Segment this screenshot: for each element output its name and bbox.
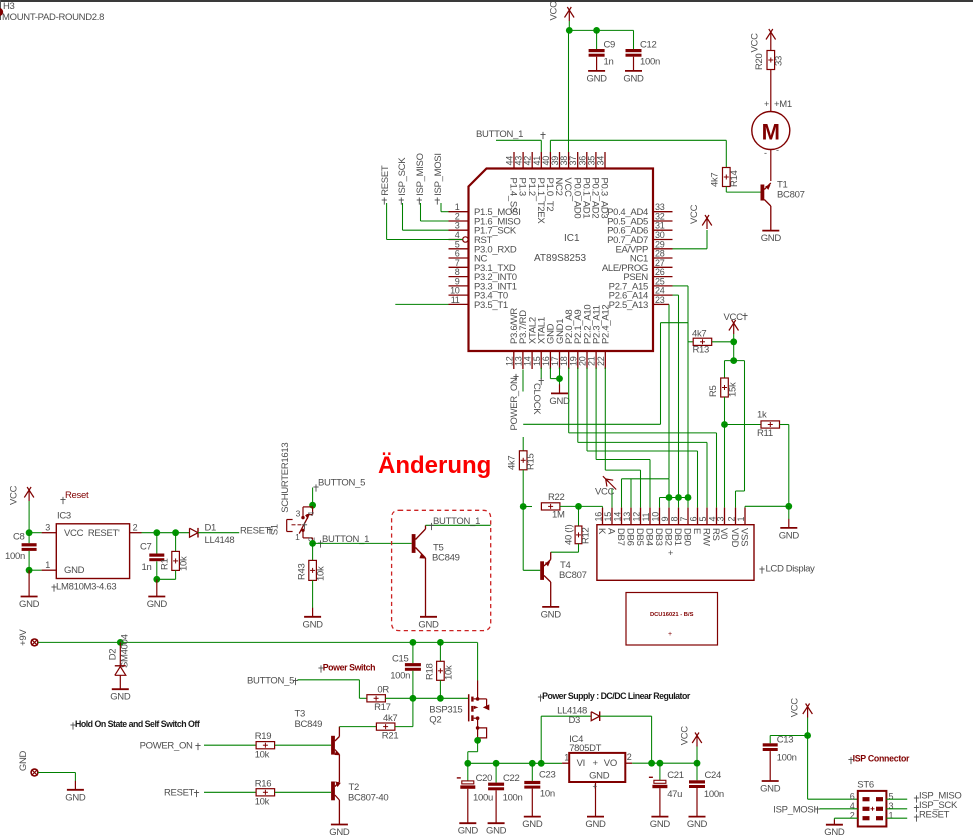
svg-text:22: 22 (596, 356, 606, 366)
svg-text:VCC: VCC (790, 698, 801, 718)
svg-text:3: 3 (715, 517, 725, 522)
svg-text:C12: C12 (640, 40, 657, 51)
svg-text:GND: GND (586, 73, 607, 84)
svg-text:VCC: VCC (680, 726, 691, 746)
svg-text:BUTTON_1: BUTTON_1 (433, 516, 480, 527)
svg-text:C21: C21 (667, 770, 684, 781)
svg-text:T2: T2 (349, 782, 360, 793)
svg-text:GND: GND (687, 819, 708, 830)
svg-text:2: 2 (627, 752, 632, 762)
svg-text:40 (!): 40 (!) (564, 524, 575, 545)
svg-text:D1: D1 (205, 523, 217, 534)
svg-text:3: 3 (296, 509, 301, 519)
svg-text:23: 23 (655, 295, 665, 305)
svg-text:BC849: BC849 (295, 719, 323, 730)
svg-text:+: + (668, 548, 673, 558)
svg-text:GND: GND (418, 619, 439, 630)
svg-text:DB7: DB7 (615, 528, 626, 546)
svg-text:C7: C7 (140, 542, 152, 553)
svg-text:+: + (668, 631, 672, 638)
svg-text:R11: R11 (757, 428, 773, 439)
svg-text:GND: GND (522, 819, 543, 830)
svg-text:ISP_SCK: ISP_SCK (397, 157, 408, 196)
svg-text:4k7: 4k7 (507, 456, 518, 470)
svg-text:-: - (764, 148, 767, 158)
svg-text:POWER_ON: POWER_ON (140, 741, 193, 752)
svg-text:Power Supply : DC/DC Linear Re: Power Supply : DC/DC Linear Regulator (542, 691, 691, 701)
svg-text:10k: 10k (255, 750, 270, 761)
svg-text:7: 7 (679, 517, 689, 522)
svg-text:11: 11 (641, 512, 651, 521)
svg-text:DB3: DB3 (653, 528, 664, 546)
svg-text:33: 33 (774, 56, 785, 66)
svg-text:GND: GND (65, 792, 86, 803)
svg-text:DCU16021 - B/S: DCU16021 - B/S (650, 612, 694, 618)
svg-text:LCD Display: LCD Display (766, 564, 816, 575)
svg-text:AT89S8253: AT89S8253 (534, 253, 587, 264)
svg-text:BC849: BC849 (432, 553, 460, 564)
svg-text:VCC: VCC (689, 204, 700, 224)
svg-text:100n: 100n (5, 551, 25, 562)
svg-text:GND: GND (19, 599, 40, 610)
svg-text:RESET: RESET (919, 810, 950, 821)
svg-text:C23: C23 (539, 770, 556, 781)
svg-text:1: 1 (295, 532, 300, 542)
svg-text:R14: R14 (729, 170, 740, 187)
svg-text:VCC: VCC (724, 312, 744, 323)
svg-text:4k7: 4k7 (383, 713, 397, 724)
svg-text:BC807-40: BC807-40 (348, 793, 388, 804)
svg-text:10k: 10k (444, 665, 455, 680)
svg-text:VCC: VCC (549, 1, 560, 21)
svg-text:1n: 1n (142, 562, 152, 573)
svg-text:GND: GND (486, 826, 507, 837)
svg-text:R12: R12 (581, 527, 592, 544)
svg-text:GND: GND (779, 530, 800, 541)
svg-text:R43: R43 (297, 563, 308, 580)
svg-text:POWER_ON: POWER_ON (509, 377, 520, 430)
svg-text:R21: R21 (382, 731, 399, 742)
svg-text:+M1: +M1 (774, 99, 792, 110)
svg-text:10n: 10n (540, 789, 555, 800)
svg-text:ISP_MISO: ISP_MISO (415, 153, 426, 195)
svg-text:GND: GND (824, 827, 845, 837)
svg-text:VCC: VCC (9, 485, 20, 505)
svg-text:DB5: DB5 (634, 528, 645, 546)
svg-text:C22: C22 (503, 773, 520, 784)
svg-text:12: 12 (631, 512, 641, 522)
svg-text:0R: 0R (377, 685, 389, 696)
svg-text:R5: R5 (708, 385, 719, 397)
svg-text:100n: 100n (390, 671, 410, 682)
svg-text:1M: 1M (552, 510, 565, 521)
svg-text:100n: 100n (704, 789, 724, 800)
svg-text:MOUNT-PAD-ROUND2.8: MOUNT-PAD-ROUND2.8 (2, 12, 104, 23)
svg-text:R1: R1 (160, 558, 171, 570)
svg-text:C20: C20 (476, 773, 493, 784)
svg-text:GND: GND (585, 819, 606, 830)
svg-text:VDD: VDD (729, 528, 740, 548)
svg-text:GND: GND (760, 784, 781, 795)
svg-text:DB4: DB4 (644, 528, 655, 546)
svg-text:R13: R13 (693, 345, 710, 356)
svg-text:1k: 1k (757, 410, 767, 421)
svg-text:SM4004: SM4004 (120, 634, 131, 668)
svg-text:DB6: DB6 (625, 528, 636, 546)
svg-text:GND: GND (110, 692, 131, 703)
svg-text:SCHURTER1613: SCHURTER1613 (280, 443, 291, 513)
svg-text:9: 9 (660, 517, 670, 522)
svg-text:Q2: Q2 (429, 715, 441, 726)
svg-text:100n: 100n (640, 57, 660, 68)
svg-text:Reset: Reset (65, 490, 89, 501)
svg-text:BUTTON_5: BUTTON_5 (247, 676, 294, 687)
svg-text:ST6: ST6 (857, 780, 874, 791)
svg-text:R20: R20 (754, 53, 765, 70)
svg-text:100n: 100n (503, 793, 523, 804)
svg-text:R18: R18 (425, 663, 436, 680)
svg-text:15k: 15k (728, 382, 739, 397)
svg-text:100n: 100n (777, 753, 797, 764)
svg-text:+: + (764, 99, 769, 109)
svg-text:100u: 100u (473, 793, 493, 804)
svg-text:VSS: VSS (739, 528, 750, 546)
svg-text:GND: GND (623, 73, 644, 84)
svg-text:DB2: DB2 (663, 528, 674, 546)
svg-text:VO: VO (604, 758, 617, 769)
svg-text:Hold On State and Self Switch: Hold On State and Self Switch Off (75, 719, 200, 729)
svg-text:GND: GND (458, 826, 479, 837)
svg-text:1n: 1n (604, 57, 614, 68)
svg-text:8: 8 (669, 517, 679, 522)
svg-text:C9: C9 (604, 40, 616, 51)
svg-text:GND: GND (589, 771, 610, 782)
svg-text:VI: VI (577, 758, 585, 769)
svg-text:Power Switch: Power Switch (323, 663, 375, 673)
svg-text:A: A (606, 528, 617, 535)
svg-text:16: 16 (593, 512, 603, 522)
svg-text:10k: 10k (255, 797, 270, 808)
svg-text:34: 34 (596, 156, 606, 166)
svg-text:LL4148: LL4148 (205, 535, 235, 546)
svg-text:15: 15 (603, 512, 613, 522)
svg-text:P3.5_T1: P3.5_T1 (474, 300, 508, 311)
svg-text:+9V: +9V (18, 629, 29, 646)
svg-text:M: M (762, 120, 780, 145)
svg-text:V0: V0 (718, 528, 729, 539)
svg-text:VCC: VCC (750, 33, 761, 53)
svg-text:1: 1 (889, 810, 894, 820)
svg-text:BC807: BC807 (777, 190, 805, 201)
svg-text:CLOCK: CLOCK (531, 383, 542, 415)
svg-text:10k: 10k (179, 556, 190, 571)
svg-text:14: 14 (612, 512, 622, 522)
svg-text:T3: T3 (295, 709, 306, 720)
svg-text:P2.5_A13: P2.5_A13 (609, 300, 648, 311)
svg-text:E: E (691, 528, 702, 534)
svg-text:C24: C24 (705, 770, 722, 781)
svg-text:BC807: BC807 (559, 570, 587, 581)
svg-text:4k7: 4k7 (710, 173, 721, 187)
svg-text:LM810M3-4.63: LM810M3-4.63 (56, 582, 116, 593)
svg-text:RESET: RESET (380, 165, 391, 196)
svg-text:RESET': RESET' (88, 528, 120, 539)
svg-text:RESET: RESET (240, 526, 271, 537)
svg-text:R/W: R/W (701, 528, 712, 546)
svg-text:6: 6 (850, 791, 855, 801)
svg-text:H3: H3 (3, 1, 15, 12)
svg-text:IC1: IC1 (564, 233, 580, 244)
svg-text:R15: R15 (526, 453, 537, 470)
svg-text:+: + (593, 758, 599, 769)
svg-text:Änderung: Änderung (378, 452, 491, 479)
svg-text:RESET: RESET (164, 788, 195, 799)
svg-text:ISP_MOSI: ISP_MOSI (773, 805, 815, 816)
svg-text:13: 13 (622, 512, 632, 522)
svg-text:-: - (776, 145, 779, 155)
svg-text:BUTTON_1: BUTTON_1 (476, 129, 523, 140)
svg-text:3: 3 (45, 523, 50, 533)
svg-text:GND: GND (18, 750, 29, 771)
svg-text:C13: C13 (777, 735, 794, 746)
svg-text:S1: S1 (270, 524, 281, 535)
svg-text:R17: R17 (374, 702, 391, 713)
svg-text:VCC: VCC (64, 528, 84, 539)
svg-text:VCC: VCC (595, 487, 615, 498)
svg-text:C8: C8 (13, 532, 25, 543)
svg-text:GND: GND (64, 565, 85, 576)
svg-text:1: 1 (45, 560, 50, 570)
svg-text:7805DT: 7805DT (569, 743, 601, 754)
svg-text:ISP Connector: ISP Connector (853, 754, 910, 764)
svg-text:D2: D2 (108, 649, 119, 661)
svg-text:GND: GND (761, 233, 782, 244)
svg-text:10: 10 (650, 512, 660, 522)
svg-text:+: + (593, 782, 598, 791)
svg-text:5: 5 (889, 791, 894, 801)
svg-text:11: 11 (451, 295, 460, 305)
svg-text:2: 2 (726, 517, 736, 522)
svg-text:GND: GND (302, 619, 323, 630)
svg-text:R19: R19 (255, 731, 272, 742)
svg-text:DB0: DB0 (682, 528, 693, 546)
svg-text:BUTTON_5: BUTTON_5 (318, 478, 365, 489)
svg-text:R16: R16 (255, 779, 272, 790)
svg-text:R22: R22 (548, 492, 565, 503)
svg-text:10k: 10k (316, 566, 327, 581)
svg-text:1: 1 (736, 517, 746, 522)
svg-text:GND: GND (329, 827, 350, 837)
svg-text:GND: GND (541, 609, 562, 620)
svg-text:2: 2 (850, 810, 855, 820)
svg-text:IC3: IC3 (57, 511, 71, 522)
svg-text:2: 2 (133, 523, 138, 533)
svg-text:4k7: 4k7 (692, 329, 706, 340)
svg-text:ISP_MOSI: ISP_MOSI (433, 153, 444, 195)
svg-text:47u: 47u (667, 789, 682, 800)
svg-text:D3: D3 (569, 715, 581, 726)
svg-text:K: K (596, 528, 607, 535)
svg-text:GND: GND (549, 396, 570, 407)
svg-text:DB1: DB1 (672, 528, 683, 546)
svg-text:GND: GND (147, 599, 168, 610)
svg-text:C15: C15 (392, 654, 409, 665)
svg-text:6: 6 (688, 517, 698, 522)
svg-text:5: 5 (698, 517, 708, 522)
svg-text:GND: GND (650, 819, 671, 830)
